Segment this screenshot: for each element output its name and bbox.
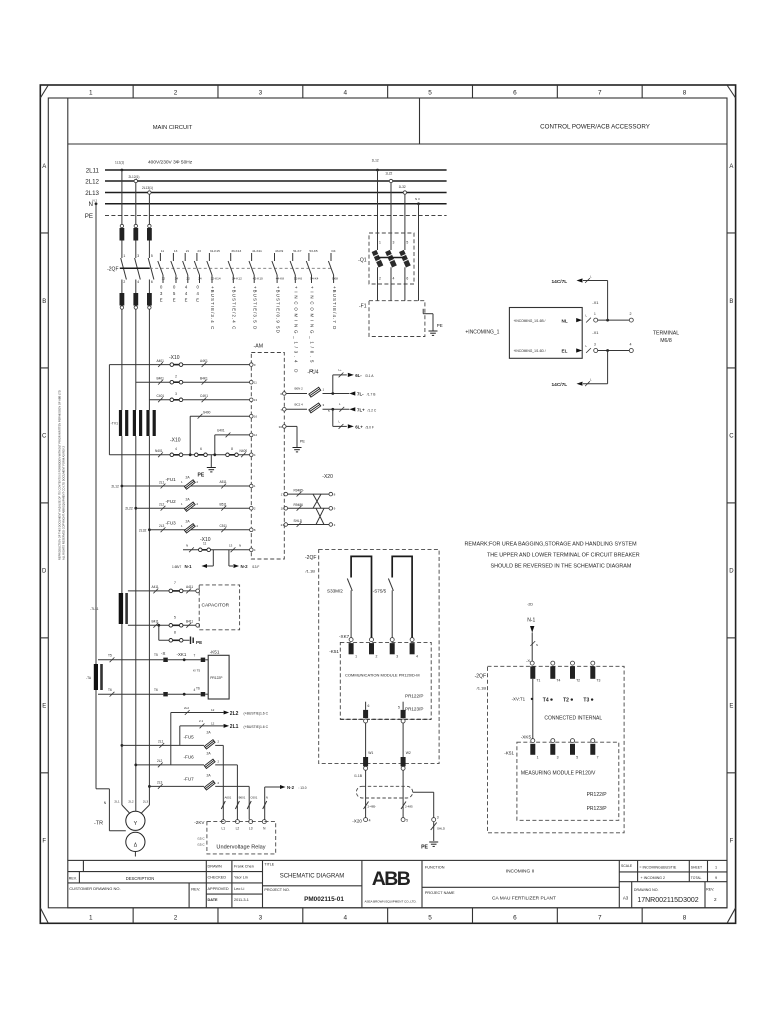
svg-text:2L2: 2L2 <box>230 711 239 717</box>
svg-text:5: 5 <box>406 819 408 823</box>
svg-text:CONNECTED INTERNAL: CONNECTED INTERNAL <box>544 716 602 722</box>
svg-text:6: 6 <box>513 915 517 922</box>
svg-text:-X20: -X20 <box>352 819 362 824</box>
svg-text:13: 13 <box>254 398 258 402</box>
wire X1 row1 <box>598 319 632 321</box>
incoming feeder box <box>509 308 582 359</box>
svg-text:2: 2 <box>714 897 717 902</box>
svg-text:MEASURING MODULE PR120/V: MEASURING MODULE PR120/V <box>521 771 596 777</box>
wire branch N-1 <box>212 550 214 566</box>
cable labels 2-485 <box>364 802 369 810</box>
svg-text:3: 3 <box>259 915 263 922</box>
svg-text:APPROVED: APPROVED <box>208 887 229 891</box>
svg-text:NL: NL <box>562 318 568 323</box>
svg-text:7: 7 <box>598 915 602 922</box>
wire capacitor PE branch <box>157 624 160 627</box>
wire N into -TR <box>96 788 109 790</box>
svg-text:A601: A601 <box>225 796 232 800</box>
svg-text:4: 4 <box>416 655 418 659</box>
svg-text:-X1: -X1 <box>592 300 599 305</box>
wire phase2 down to -TR <box>135 508 137 805</box>
svg-text:PROJECT NAME: PROJECT NAME <box>425 891 455 895</box>
svg-text:31-K15: 31-K15 <box>210 249 220 253</box>
svg-text:51-K7: 51-K7 <box>293 249 302 253</box>
current transformer winding at N drop <box>94 664 98 690</box>
wire 2L3 feed row <box>148 785 151 788</box>
svg-text:(+BUSTIE(1.6 C: (+BUSTIE(1.6 C <box>244 712 269 716</box>
wire N drop long <box>95 204 97 789</box>
svg-text:6: 6 <box>200 447 202 451</box>
node tap 1L1 right <box>376 169 379 172</box>
svg-text:N: N <box>266 796 268 800</box>
comm module pin 4 <box>410 638 414 642</box>
transformer -TR primary circle <box>126 811 145 830</box>
svg-text:2L1: 2L1 <box>159 480 165 484</box>
svg-text:-FU2: -FU2 <box>166 499 177 504</box>
svg-text:2L12: 2L12 <box>85 178 99 185</box>
svg-text:PE: PE <box>85 213 93 220</box>
svg-text:ALL RIGHTS RESERVED COPYRIGHT: ALL RIGHTS RESERVED COPYRIGHT ABB EQUIPM… <box>62 445 66 560</box>
svg-text:PE: PE <box>300 440 306 444</box>
wire shield drain <box>413 791 434 793</box>
wire phase3 down to -TR <box>148 530 150 805</box>
measuring module pin 1 <box>531 739 535 743</box>
svg-text:T4: T4 <box>543 697 549 703</box>
svg-text:-X10: -X10 <box>170 438 181 444</box>
svg-text:2.1: 2.1 <box>199 719 204 723</box>
svg-text:/3.0 F: /3.0 F <box>366 426 374 430</box>
svg-text:N-1: N-1 <box>185 564 193 569</box>
svg-text:30: 30 <box>279 425 283 429</box>
svg-text:N: N <box>536 643 538 647</box>
svg-text:EL: EL <box>562 349 568 354</box>
svg-text:TERMINAL: TERMINAL <box>653 331 679 337</box>
wire tap N down to -F1 <box>418 204 420 301</box>
svg-text:1: 1 <box>594 312 596 316</box>
svg-text:9: 9 <box>715 876 717 880</box>
wire row S400 to -AM <box>189 416 191 455</box>
svg-text:S33M/2: S33M/2 <box>327 589 343 594</box>
comm module pin 3 <box>390 638 394 642</box>
twisted pair crossing marks <box>313 494 321 508</box>
svg-text:1L32: 1L32 <box>399 185 406 189</box>
aux contact 13/14 <box>172 253 174 261</box>
svg-text:22: 22 <box>186 277 190 281</box>
svg-text:-TR: -TR <box>94 821 103 827</box>
svg-text:A411: A411 <box>152 585 159 589</box>
measuring module pin 7 <box>591 739 595 743</box>
CT pin T3 <box>591 661 595 665</box>
svg-text:2A: 2A <box>207 730 212 734</box>
svg-text:-TA: -TA <box>86 676 92 680</box>
node tap 2L12 left <box>134 179 137 182</box>
svg-text:1: 1 <box>355 655 357 659</box>
svg-text:B: B <box>42 299 46 305</box>
svg-text:-X10: -X10 <box>169 355 180 361</box>
breaker -Q1 link bar <box>378 257 405 259</box>
wire tap2 down <box>135 183 137 225</box>
svg-text:PM002115-01: PM002115-01 <box>304 896 344 903</box>
svg-text:A4K1: A4K1 <box>200 359 208 363</box>
svg-text:17NR002115D3002: 17NR002115D3002 <box>637 897 698 904</box>
svg-text:+INCOMING_1/0.5 6: +INCOMING_1/0.5 6 <box>310 286 315 374</box>
svg-text:/15.C: /15.C <box>197 843 205 847</box>
svg-text:N400: N400 <box>240 449 248 453</box>
svg-text:T6: T6 <box>154 688 158 692</box>
svg-text:7L+: 7L+ <box>357 408 365 413</box>
svg-text:PR122/P: PR122/P <box>587 792 608 798</box>
svg-text:-F1: -F1 <box>359 304 367 310</box>
CT pin T1 <box>530 666 535 679</box>
aux contact 31-K15/32-K14 <box>208 253 210 261</box>
node terminal 4 <box>629 349 633 353</box>
svg-text:8: 8 <box>683 90 687 97</box>
svg-text:23: 23 <box>197 249 201 253</box>
svg-text:-K51: -K51 <box>210 649 220 654</box>
svg-text:L2: L2 <box>236 826 240 830</box>
svg-text:1: 1 <box>89 915 93 922</box>
svg-text:DRAWING NO.: DRAWING NO. <box>634 888 659 892</box>
svg-text:R9486: R9486 <box>294 503 304 507</box>
svg-text:53-K5: 53-K5 <box>309 249 318 253</box>
wire W2 <box>402 723 404 757</box>
svg-text:2L1: 2L1 <box>114 800 119 804</box>
breaker -Q1 dashed box <box>369 233 414 284</box>
svg-text:T6: T6 <box>108 688 112 692</box>
wire phase1 down to -TR <box>121 486 123 805</box>
svg-text:5: 5 <box>428 915 432 922</box>
svg-text:3: 3 <box>557 756 559 760</box>
svg-text:K/ T5: K/ T5 <box>193 669 200 673</box>
wire shield to PE <box>433 822 435 841</box>
svg-text:B4K1: B4K1 <box>200 376 208 380</box>
node -AM terminal A511 <box>250 484 254 488</box>
CT pin T2 <box>571 661 575 665</box>
svg-text:5: 5 <box>428 90 432 97</box>
svg-text:2: 2 <box>630 312 632 316</box>
svg-text:4: 4 <box>137 280 139 284</box>
svg-text:8: 8 <box>231 447 233 451</box>
svg-text:B0N 2: B0N 2 <box>295 387 304 391</box>
svg-text:D08: D08 <box>332 277 338 281</box>
wire branch down 6L+ <box>332 409 334 426</box>
svg-text:2L2: 2L2 <box>184 706 189 710</box>
bus 2L12 <box>105 180 447 182</box>
svg-text:/3.1 A: /3.1 A <box>365 374 374 378</box>
svg-text:13: 13 <box>229 544 233 548</box>
svg-text:14C/7L: 14C/7L <box>552 382 568 388</box>
svg-text:TOTAL: TOTAL <box>691 876 702 880</box>
transformer -TR secondary circle <box>126 832 145 851</box>
comm box bottom feedthrough W1 <box>363 757 368 766</box>
svg-text:W2: W2 <box>406 751 411 755</box>
svg-text:DRAWN: DRAWN <box>208 864 222 868</box>
bus PE (dashed) <box>105 215 447 217</box>
svg-text:/1.1B: /1.1B <box>477 686 487 691</box>
ground PE FU4 <box>293 447 302 449</box>
svg-text:3: 3 <box>137 254 139 258</box>
svg-text:+BUSTIE/0.9 5D: +BUSTIE/0.9 5D <box>275 286 280 334</box>
svg-text:14C/7L: 14C/7L <box>552 279 568 285</box>
node -X terminal <box>530 661 534 665</box>
undervoltage relay -2KV dashed box <box>207 822 276 854</box>
comm module pin 2 <box>370 638 374 642</box>
aux contact 51-K7/52-K6 <box>292 253 294 261</box>
svg-text:A511: A511 <box>220 480 227 484</box>
svg-text:3: 3 <box>259 90 263 97</box>
svg-text:2L3: 2L3 <box>157 780 163 784</box>
svg-text:400V/230V 3Φ 50Hz: 400V/230V 3Φ 50Hz <box>148 160 193 166</box>
svg-text:-X: -X <box>526 658 530 663</box>
svg-text:CONTROL POWER/ACB ACCESSORY: CONTROL POWER/ACB ACCESSORY <box>540 124 650 131</box>
release module -F1 dashed box <box>369 301 425 337</box>
svg-text:C: C <box>42 434 47 440</box>
ground PE shield <box>429 841 438 843</box>
svg-text:T6: T6 <box>196 686 200 690</box>
svg-text:21: 21 <box>186 249 190 253</box>
svg-text:B601: B601 <box>239 796 246 800</box>
svg-text:-XK5: -XK5 <box>521 735 532 740</box>
node terminal 2 <box>629 318 633 322</box>
svg-text:(+BUSTIE(1.6 C: (+BUSTIE(1.6 C <box>244 725 269 729</box>
svg-text:2-485-: 2-485- <box>368 805 377 809</box>
svg-text:/1.1B: /1.1B <box>354 774 363 778</box>
ground PE at -F1 <box>429 330 438 332</box>
svg-text:6L+: 6L+ <box>355 425 363 430</box>
svg-text:-AM: -AM <box>254 344 264 350</box>
svg-text:REV.: REV. <box>69 876 77 880</box>
svg-text:T4: T4 <box>556 679 560 683</box>
svg-text:CHECKED: CHECKED <box>208 876 227 880</box>
svg-text:TITLE: TITLE <box>264 862 274 866</box>
svg-text:-FU6: -FU6 <box>184 754 195 759</box>
svg-text:MAIN CIRCUIT: MAIN CIRCUIT <box>153 125 193 131</box>
svg-text:E: E <box>185 298 188 303</box>
svg-text:7: 7 <box>597 756 599 760</box>
wire N row to -AM <box>183 549 251 551</box>
svg-text:DESCRIPTION: DESCRIPTION <box>126 876 155 881</box>
svg-text:5: 5 <box>398 706 400 710</box>
svg-text:SHLD: SHLD <box>437 827 446 831</box>
svg-text:2L12(1): 2L12(1) <box>129 175 140 179</box>
module -AM dashed box <box>251 353 284 560</box>
svg-text:2A: 2A <box>207 773 212 777</box>
node tap 1L3 right <box>403 191 406 194</box>
svg-text:N 3: N 3 <box>415 197 420 201</box>
svg-text:2L2: 2L2 <box>159 503 165 507</box>
wire row B401 to -AM <box>136 381 252 383</box>
svg-text:2A: 2A <box>207 751 212 755</box>
svg-text:A3: A3 <box>623 896 629 901</box>
svg-text:E: E <box>173 298 176 303</box>
svg-text:6: 6 <box>151 280 153 284</box>
svg-text:+INCOMING_1/1.6B /: +INCOMING_1/1.6B / <box>514 319 546 323</box>
svg-text:PR122/P: PR122/P <box>405 694 423 699</box>
measuring module inner dashed box <box>517 742 619 820</box>
svg-text:2: 2 <box>175 375 177 379</box>
svg-text:5: 5 <box>174 616 176 620</box>
svg-text:Frank Chen: Frank Chen <box>234 864 254 868</box>
switch S33M/2 loop <box>351 556 371 637</box>
svg-text:PROJECT NO.: PROJECT NO. <box>264 888 289 892</box>
svg-text:COMMUNICATION MODULE PR120/D-M: COMMUNICATION MODULE PR120/D-M <box>345 673 420 678</box>
svg-text:N-2: N-2 <box>241 564 249 569</box>
svg-text:C401: C401 <box>157 394 165 398</box>
svg-text:6: 6 <box>368 704 370 708</box>
wire branch up 14C/7L upper <box>607 281 609 321</box>
svg-text:2: 2 <box>174 915 178 922</box>
svg-text:2A: 2A <box>186 476 191 480</box>
svg-text:FUNCTION: FUNCTION <box>425 866 445 870</box>
svg-text:B: B <box>729 299 733 305</box>
svg-text:CA MAU FERTILIZER PLANT: CA MAU FERTILIZER PLANT <box>492 896 556 902</box>
node -X20 terminal 5 <box>401 818 405 822</box>
communication section -2QF dashed box <box>319 549 439 763</box>
svg-text:4: 4 <box>175 447 177 451</box>
svg-text:/1.7 B: /1.7 B <box>367 393 376 397</box>
comm pin 5 lower <box>402 702 404 710</box>
svg-text:A401: A401 <box>157 359 165 363</box>
comm box bottom feedthrough W2 <box>401 757 406 766</box>
svg-text:REV.: REV. <box>706 888 714 892</box>
contact plug lower pole 2 <box>133 293 138 306</box>
wire N-2 feed <box>265 786 281 788</box>
wire row C401 to -AM <box>149 399 251 401</box>
svg-text:4: 4 <box>343 90 347 97</box>
svg-text:2L1: 2L1 <box>230 724 239 730</box>
svg-text:-Q1: -Q1 <box>358 258 367 264</box>
svg-text:44-K8: 44-K8 <box>276 277 285 281</box>
svg-text:E: E <box>160 298 163 303</box>
svg-text:Undervoltage Relay: Undervoltage Relay <box>216 844 265 850</box>
svg-text:E: E <box>42 704 46 710</box>
wire branch down 14C/7L lower <box>607 351 609 384</box>
wire FU6 output down <box>215 764 237 766</box>
svg-text:= INCOMING&BUSTIE: = INCOMING&BUSTIE <box>639 866 676 870</box>
svg-text:SHLD: SHLD <box>294 519 303 523</box>
node -AM terminal row C401 <box>250 398 254 402</box>
wire 2L1 feed row <box>121 744 124 747</box>
svg-text:/1.2 C: /1.2 C <box>368 409 377 413</box>
svg-text:-XK7: -XK7 <box>339 634 350 639</box>
svg-text:SHEET: SHEET <box>691 866 702 870</box>
svg-text:PR122P: PR122P <box>210 676 223 680</box>
wire tap1 down <box>121 170 123 224</box>
bus 2L13 <box>105 192 447 194</box>
svg-text:6L-: 6L- <box>355 373 362 378</box>
svg-text:5: 5 <box>576 756 578 760</box>
wire row U401 to -AM <box>214 435 216 455</box>
svg-text:REMARK:FOR UREA BAGGING,STORAG: REMARK:FOR UREA BAGGING,STORAGE AND HAND… <box>465 542 638 548</box>
svg-text:14: 14 <box>175 277 179 281</box>
wire tap 1L3 down <box>404 194 406 250</box>
svg-text:BC2 4: BC2 4 <box>295 403 304 407</box>
svg-text:3: 3 <box>175 392 177 396</box>
svg-text:D: D <box>729 569 734 575</box>
svg-text:N: N <box>239 544 241 548</box>
contact plug upper pole 2 <box>134 224 137 227</box>
svg-text:F: F <box>730 839 734 845</box>
svg-text:1.6B/7: 1.6B/7 <box>172 565 181 569</box>
bus N <box>105 203 447 205</box>
svg-text:C601: C601 <box>250 796 257 800</box>
breaker -2QF pole 2 <box>135 244 137 258</box>
svg-text:T2: T2 <box>563 697 569 703</box>
svg-text:A: A <box>42 164 46 170</box>
svg-text:6: 6 <box>513 90 517 97</box>
svg-text:32-K14: 32-K14 <box>211 277 221 281</box>
svg-text:C4K1: C4K1 <box>200 394 208 398</box>
wire pin30 to PE <box>286 425 297 427</box>
svg-text:41-K11: 41-K11 <box>252 249 262 253</box>
svg-text:SCALE: SCALE <box>621 864 633 868</box>
svg-text:2L11: 2L11 <box>86 167 100 174</box>
svg-text:B411: B411 <box>152 619 159 623</box>
svg-text:-2KV: -2KV <box>194 820 205 825</box>
aux contact 21/22 <box>184 253 186 261</box>
svg-text:N 2: N 2 <box>93 199 98 203</box>
wire tap 1L2 down <box>390 183 392 250</box>
node -AM terminal B511 <box>250 506 254 510</box>
svg-text:2: 2 <box>376 655 378 659</box>
title block outline <box>68 860 727 907</box>
svg-text:-FU4: -FU4 <box>307 370 318 376</box>
wire 2L2 feed row <box>134 764 137 767</box>
svg-text:-X: -X <box>161 651 165 656</box>
svg-text:-X1: -X1 <box>592 330 599 335</box>
svg-text:D4: D4 <box>332 249 336 253</box>
svg-text:Yaor Lin: Yaor Lin <box>234 876 248 880</box>
svg-text:2L12: 2L12 <box>111 485 119 489</box>
wire W1 <box>365 723 367 757</box>
measuring module pin 3 <box>551 739 555 743</box>
svg-text:2-485: 2-485 <box>405 805 413 809</box>
svg-text:Y: Y <box>134 821 138 827</box>
svg-text:2L22: 2L22 <box>125 507 133 511</box>
svg-text:U401: U401 <box>217 428 225 432</box>
wire row T5 <box>98 659 163 661</box>
breaker -2QF link bar <box>120 267 150 269</box>
svg-text:PE: PE <box>198 473 205 479</box>
svg-text:2L32: 2L32 <box>139 528 147 532</box>
node -X20 terminal 3 shield <box>432 818 436 822</box>
svg-text:1: 1 <box>89 90 93 97</box>
wire left bus vertical x109 <box>108 365 110 455</box>
wire W2 to -X20 <box>402 770 404 817</box>
wire pin6 to FU4a <box>286 393 307 395</box>
wire 2L1 output branch <box>179 726 181 746</box>
svg-text:7: 7 <box>598 90 602 97</box>
svg-text:+BUSTIE/3.5 D: +BUSTIE/3.5 D <box>252 286 257 330</box>
node -AM terminal row B401 <box>250 380 254 384</box>
svg-text:2L2: 2L2 <box>157 759 163 763</box>
wire T1 through box <box>532 679 534 739</box>
svg-text:ABB: ABB <box>372 868 411 890</box>
svg-text:+ INCOMING 2: + INCOMING 2 <box>641 876 665 880</box>
svg-text:DATE: DATE <box>208 898 219 902</box>
svg-text:4: 4 <box>369 819 371 823</box>
svg-text:C: C <box>729 434 734 440</box>
svg-text:ASEA BROWN EQUIPMENT CO.,LTD.: ASEA BROWN EQUIPMENT CO.,LTD. <box>364 900 416 904</box>
svg-text:1: 1 <box>715 866 717 870</box>
svg-text:12: 12 <box>211 721 215 725</box>
svg-text:34-K12: 34-K12 <box>232 277 242 281</box>
measuring section -2QF dashed box <box>488 666 625 833</box>
svg-text:B511: B511 <box>220 502 227 506</box>
svg-text:SCHEMATIC DIAGRAM: SCHEMATIC DIAGRAM <box>280 874 345 880</box>
svg-text:PE: PE <box>437 323 443 328</box>
svg-text:N401: N401 <box>155 449 163 453</box>
